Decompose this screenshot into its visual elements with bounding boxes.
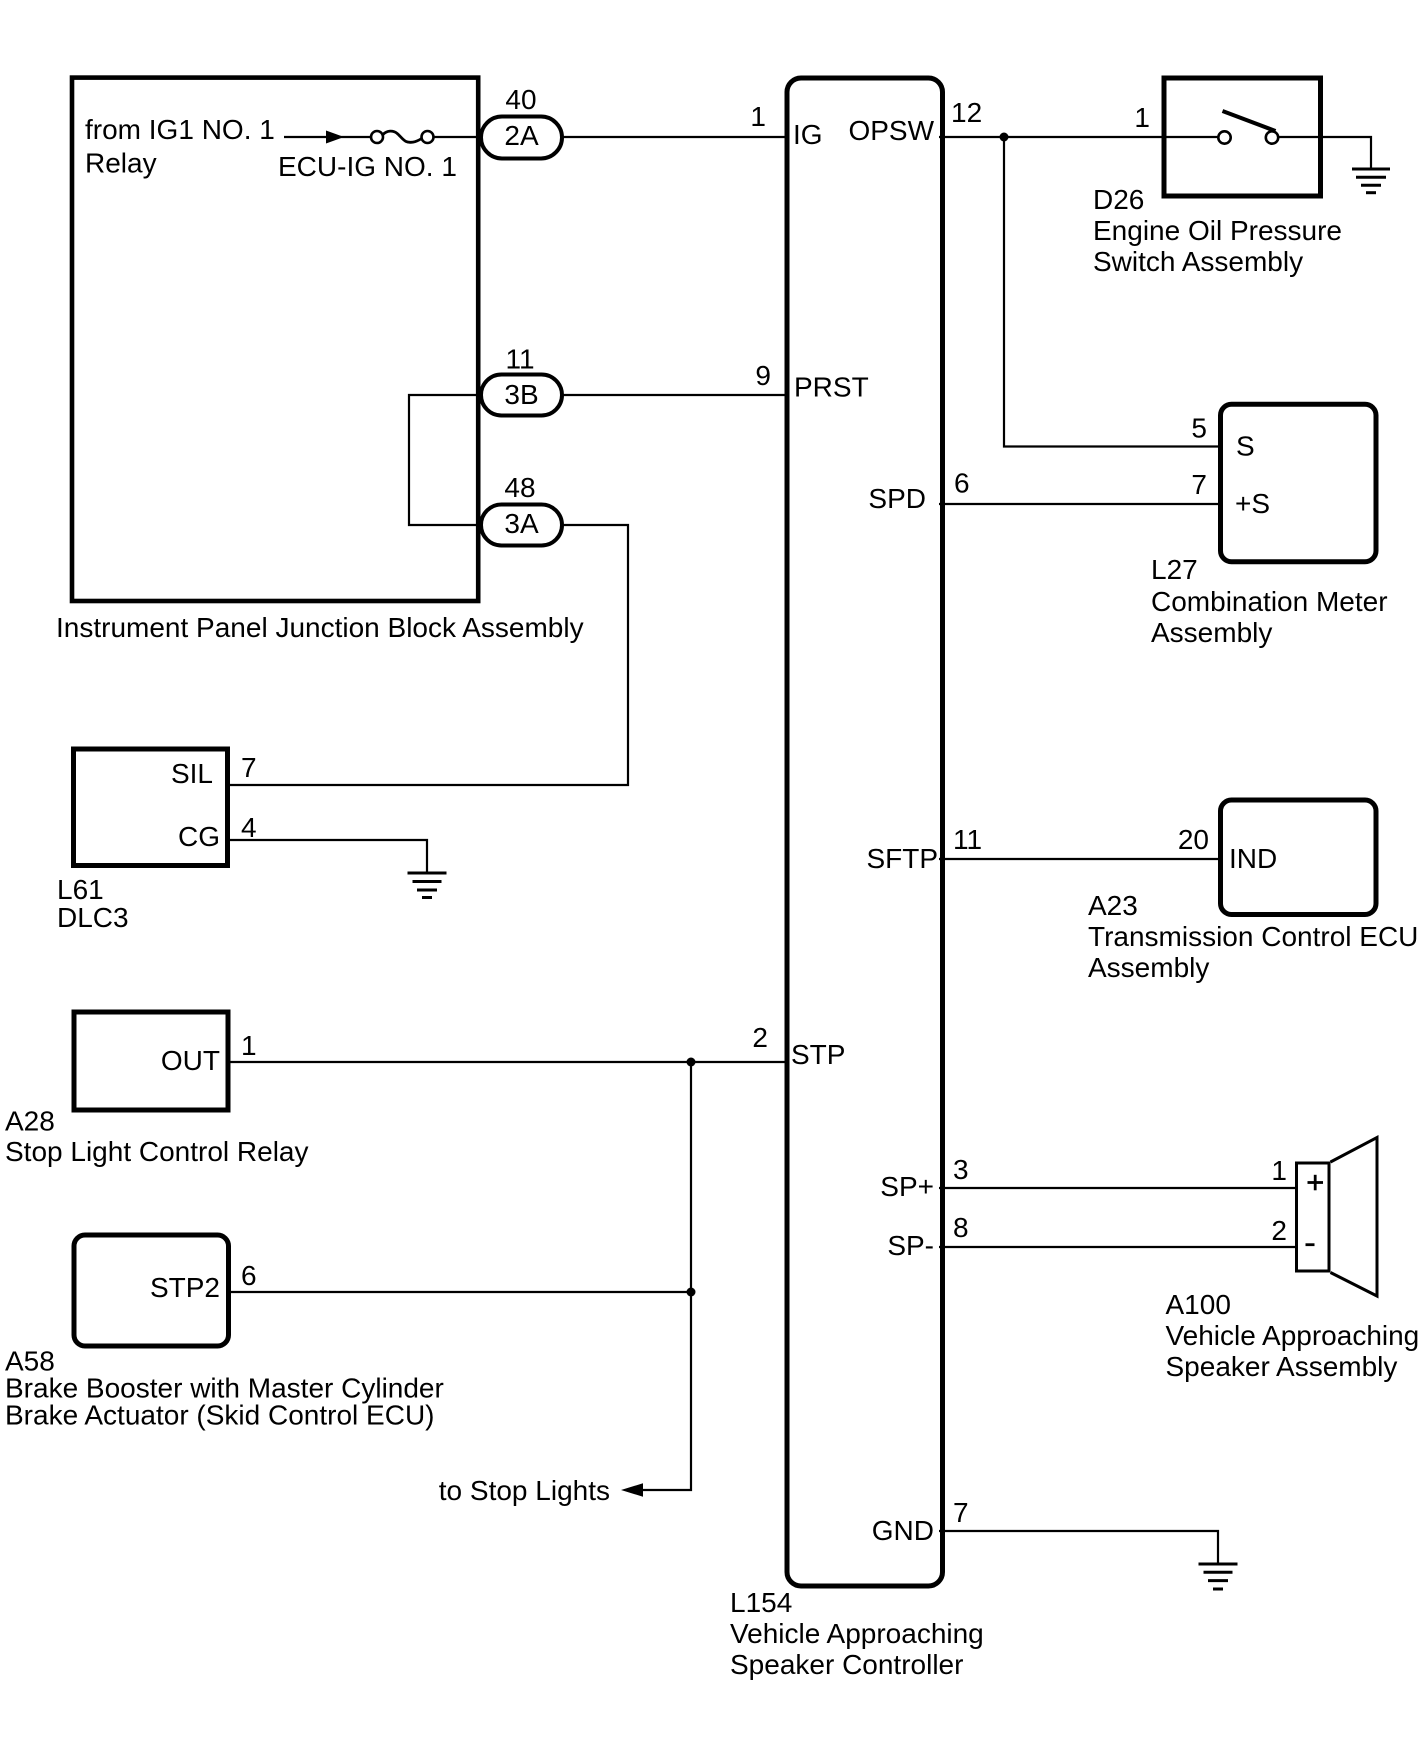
pin number 7 (GND) [953, 1497, 969, 1528]
wire 3A to DLC3 SIL pin 7 [227, 525, 628, 785]
svg-text:2A: 2A [504, 120, 539, 151]
controller label [730, 1587, 984, 1680]
svg-text:SP+: SP+ [880, 1171, 934, 1202]
connector 3B (pin 11) oval [481, 375, 562, 416]
svg-text:Switch Assembly: Switch Assembly [1093, 246, 1303, 277]
wire SPD pin 6 to meter +S pin 7 [939, 503, 1222, 505]
svg-text:S: S [1236, 431, 1255, 462]
svg-text:12: 12 [951, 97, 982, 128]
svg-text:1: 1 [1134, 102, 1150, 133]
pin number 1 (OUT) [241, 1030, 257, 1061]
svg-text:1: 1 [1271, 1155, 1287, 1186]
svg-text:Vehicle Approaching: Vehicle Approaching [730, 1618, 984, 1649]
wire fuse to connector 2A [434, 136, 482, 138]
pin number 4 (CG) [241, 812, 257, 843]
pin number 12 (OPSW) [951, 97, 982, 128]
svg-text:8: 8 [953, 1212, 969, 1243]
svg-text:from IG1 NO. 1: from IG1 NO. 1 [85, 114, 275, 145]
svg-text:1: 1 [750, 101, 766, 132]
wire from IG1 relay to fuse [284, 136, 371, 138]
ECU A23 Transmission Control ECU box [1221, 800, 1377, 915]
pin number 6 (STP2) [241, 1260, 257, 1291]
wire 2A to IG pin 1 [562, 136, 789, 138]
pin number 48 [504, 472, 535, 503]
svg-text:A28: A28 [5, 1106, 55, 1137]
svg-text:STP: STP [791, 1039, 845, 1070]
svg-text:SFTP: SFTP [866, 843, 938, 874]
svg-text:3A: 3A [504, 508, 539, 539]
ground at DLC3 CG [408, 873, 447, 898]
A100 label [1166, 1289, 1420, 1382]
svg-text:2: 2 [752, 1022, 768, 1053]
A58 pin label STP2 [150, 1272, 220, 1303]
DLC3 pin labels SIL CG [171, 758, 220, 852]
wire CG to ground [227, 840, 427, 872]
svg-text:L61: L61 [57, 874, 104, 905]
svg-text:3B: 3B [504, 379, 538, 410]
wire SFTP pin 11 to A23 IND pin 20 [939, 858, 1222, 860]
controller pin labels right [848, 115, 938, 1546]
svg-text:Stop Light Control Relay: Stop Light Control Relay [5, 1136, 309, 1167]
wire STP2 to junction [229, 1291, 692, 1293]
wire D26 to ground [1323, 137, 1371, 168]
pin number 3 (SP+) [953, 1154, 969, 1185]
arrow to stop lights [621, 1483, 643, 1496]
pin number 7 (SIL) [241, 752, 257, 783]
svg-text:Combination Meter: Combination Meter [1151, 586, 1388, 617]
meter L27 Combination Meter Assembly box [1221, 404, 1377, 561]
wire SP- pin 8 to speaker pin 2 [939, 1246, 1297, 1248]
pin number 2 (speaker -) [1271, 1215, 1287, 1246]
svg-text:GND: GND [872, 1515, 934, 1546]
controller pin labels left [791, 119, 869, 1070]
svg-text:L154: L154 [730, 1587, 792, 1618]
pin number 40 [505, 84, 536, 115]
svg-text:5: 5 [1191, 413, 1207, 444]
svg-text:2: 2 [1271, 1215, 1287, 1246]
pin number 11 (SFTP) [953, 824, 982, 855]
svg-text:ECU-IG NO. 1: ECU-IG NO. 1 [278, 151, 457, 182]
wire OPSW junction down to meter S pin 5 [1004, 137, 1222, 447]
svg-text:40: 40 [505, 84, 536, 115]
wire 3B to PRST pin 9 [562, 394, 789, 396]
pin number 9 (PRST) [755, 360, 771, 391]
junction dot STP2 [687, 1288, 696, 1297]
svg-text:SPD: SPD [868, 483, 926, 514]
connector 2A (pin 40) oval [481, 117, 562, 159]
fuse ECU-IG NO. 1 [371, 131, 434, 143]
svg-text:Speaker Assembly: Speaker Assembly [1166, 1351, 1398, 1382]
pin number 5 (S) [1191, 413, 1207, 444]
svg-text:to Stop Lights: to Stop Lights [439, 1475, 610, 1506]
svg-text:6: 6 [954, 468, 970, 499]
svg-text:OUT: OUT [161, 1045, 220, 1076]
junction dot OPSW [1000, 133, 1009, 142]
svg-text:Relay: Relay [85, 148, 157, 179]
svg-text:7: 7 [241, 752, 257, 783]
svg-text:Transmission Control ECU: Transmission Control ECU [1088, 921, 1418, 952]
ECU A58 Brake Booster box [74, 1235, 229, 1346]
wire GND pin 7 to ground [939, 1531, 1218, 1563]
speaker A100 symbol [1297, 1138, 1378, 1297]
D26 label [1093, 184, 1342, 277]
A28 pin label OUT [161, 1045, 220, 1076]
svg-text:SP-: SP- [887, 1230, 934, 1261]
junction block: Instrument Panel Junction Block Assembly box [72, 78, 478, 601]
junction block label text [56, 114, 584, 643]
svg-text:1: 1 [241, 1030, 257, 1061]
pin number 1 (speaker +) [1271, 1155, 1287, 1186]
switch contacts and blade [1166, 111, 1318, 144]
pin number 1 (IG) [750, 101, 766, 132]
svg-text:Vehicle Approaching: Vehicle Approaching [1166, 1320, 1420, 1351]
A58 label [5, 1346, 444, 1431]
fuse value label ECU-IG NO. 1 [278, 151, 457, 182]
svg-text:7: 7 [953, 1497, 969, 1528]
relay A28 Stop Light Control Relay box [74, 1012, 228, 1110]
svg-text:IG: IG [793, 119, 823, 150]
pin number 20 (IND) [1178, 824, 1209, 855]
DLC3 label [57, 874, 129, 933]
switch D26 Engine Oil Pressure Switch box [1164, 78, 1321, 196]
svg-text:Speaker Controller: Speaker Controller [730, 1649, 963, 1680]
L27 pin labels [1235, 431, 1270, 520]
svg-text:SIL: SIL [171, 758, 213, 789]
ground at D26 [1352, 169, 1390, 193]
svg-text:Assembly: Assembly [1151, 617, 1272, 648]
arrow on IG1 feed wire [326, 131, 344, 144]
svg-text:STP2: STP2 [150, 1272, 220, 1303]
L27 label [1151, 554, 1388, 648]
wire OUT to STP pin 2 [228, 1061, 789, 1063]
A23 label [1088, 890, 1418, 983]
svg-text:L27: L27 [1151, 554, 1198, 585]
svg-text:IND: IND [1229, 843, 1277, 874]
A23 pin label IND [1229, 843, 1277, 874]
svg-text:OPSW: OPSW [848, 115, 934, 146]
svg-text:Instrument Panel Junction Bloc: Instrument Panel Junction Block Assembly [56, 612, 584, 643]
svg-text:Engine Oil Pressure: Engine Oil Pressure [1093, 215, 1342, 246]
pin number 2 (STP) [752, 1022, 768, 1053]
junction dot STP [687, 1058, 696, 1067]
connector L61 DLC3 box [74, 749, 228, 866]
svg-text:3: 3 [953, 1154, 969, 1185]
svg-text:11: 11 [953, 824, 982, 855]
svg-text:PRST: PRST [794, 372, 869, 403]
svg-text:A100: A100 [1166, 1289, 1231, 1320]
wire 3B to 3A left loop [409, 395, 482, 525]
connector 3A (pin 48) oval [481, 505, 562, 546]
svg-text:D26: D26 [1093, 184, 1144, 215]
pin number 11 [505, 344, 534, 375]
svg-text:Assembly: Assembly [1088, 952, 1209, 983]
svg-text:6: 6 [241, 1260, 257, 1291]
controller L154 Vehicle Approaching Speaker Controller box [787, 78, 943, 1586]
svg-text:7: 7 [1191, 469, 1207, 500]
wire SP+ pin 3 to speaker pin 1 [939, 1187, 1297, 1189]
svg-text:9: 9 [755, 360, 771, 391]
svg-text:A23: A23 [1088, 890, 1138, 921]
svg-text:Brake Actuator (Skid Control E: Brake Actuator (Skid Control ECU) [5, 1400, 435, 1431]
to Stop Lights label [439, 1475, 610, 1506]
svg-text:20: 20 [1178, 824, 1209, 855]
ground at GND [1199, 1564, 1238, 1589]
A28 label [5, 1106, 309, 1168]
pin number 6 (SPD) [954, 468, 970, 499]
pin number 8 (SP-) [953, 1212, 969, 1243]
svg-text:11: 11 [505, 344, 534, 375]
svg-text:CG: CG [178, 821, 220, 852]
pin number 7 (+S) [1191, 469, 1207, 500]
wire OPSW pin 12 to D26 [939, 136, 1166, 138]
wire junction down to stop lights [641, 1062, 691, 1490]
svg-text:48: 48 [504, 472, 535, 503]
pin number 1 (D26) [1134, 102, 1150, 133]
svg-text:4: 4 [241, 812, 257, 843]
svg-text:+S: +S [1235, 488, 1270, 519]
svg-text:DLC3: DLC3 [57, 902, 129, 933]
